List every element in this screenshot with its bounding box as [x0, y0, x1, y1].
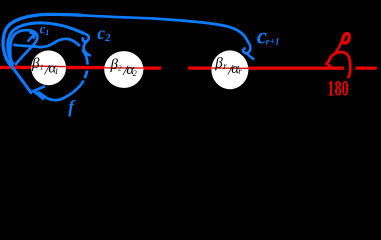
sphere 1	[31, 50, 66, 85]
curve c_{r+1} right part	[82, 15, 248, 42]
thin axis through sphere 1	[32, 65, 66, 68]
curve c2	[8, 23, 85, 65]
svg-text:1: 1	[55, 67, 59, 76]
svg-text:2: 2	[133, 69, 137, 78]
svg-text:2: 2	[104, 33, 111, 44]
axis segment left of sphere 1	[0, 66, 32, 69]
svg-text:1: 1	[40, 63, 44, 71]
svg-text:β: β	[31, 56, 40, 72]
axis dash 2 between sphere 2 and sphere 3	[188, 66, 212, 69]
curve c1 arrow	[28, 33, 36, 42]
axis segment between sphere 1 and sphere 2	[65, 66, 105, 69]
rotation arrowhead	[326, 58, 331, 66]
curve c2 end curl	[83, 34, 91, 56]
fiber loop dashed back	[80, 46, 88, 83]
svg-text:2: 2	[118, 65, 122, 73]
thin axis through sphere 3	[212, 67, 248, 69]
svg-text:β: β	[214, 56, 223, 72]
curve c1 loop	[10, 30, 37, 66]
axis dash 1 between sphere 2 and sphere 3	[143, 66, 161, 69]
fiber loop arrowhead	[33, 86, 45, 99]
rho symbol	[336, 39, 343, 53]
svg-text:1: 1	[45, 28, 49, 37]
rotation arrow arc	[329, 52, 351, 78]
svg-text:r+1: r+1	[266, 38, 280, 48]
sphere 3	[211, 50, 248, 89]
curve c_{r+1}	[3, 14, 82, 67]
svg-text:r: r	[238, 66, 242, 76]
svg-text:r: r	[223, 61, 227, 71]
curve c_{r+1} end curl	[243, 42, 254, 59]
sphere 2	[104, 51, 143, 88]
svg-text:c: c	[97, 23, 105, 43]
axis segment at right edge	[356, 66, 377, 69]
thin axis through sphere 2	[105, 67, 144, 69]
fiber loop front upper	[13, 39, 80, 47]
svg-text:180: 180	[327, 75, 349, 100]
diagonal stroke through axis point	[13, 68, 32, 94]
fiber loop bottom	[37, 84, 81, 101]
axis segment right of sphere 3	[248, 66, 344, 69]
